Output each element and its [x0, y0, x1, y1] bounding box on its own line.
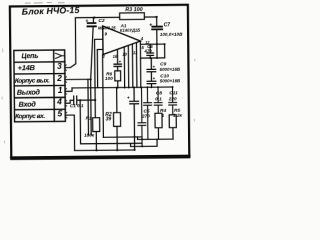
svg-text:R3 100: R3 100 [125, 7, 142, 13]
wire row5 korpus vh to ground bus [65, 115, 74, 151]
wire C1 to node [77, 99, 95, 101]
junction bus C10 [151, 86, 153, 88]
junction output C7 [156, 43, 158, 45]
svg-text:3: 3 [57, 61, 62, 71]
svg-text:4: 4 [140, 36, 144, 41]
capacitor C8 [154, 87, 162, 113]
svg-text:С2: С2 [98, 18, 105, 24]
svg-text:+14В: +14В [18, 63, 36, 72]
wire output bus horizontal [72, 86, 172, 89]
capacitor C11 [169, 87, 177, 115]
svg-text:10: 10 [122, 52, 127, 57]
svg-text:С11: С11 [169, 90, 178, 96]
capacitor C7 plates [152, 27, 162, 30]
scan noise specks top [2, 47, 196, 143]
junction busB C4 [141, 138, 143, 140]
svg-text:11: 11 [133, 50, 138, 55]
svg-text:+: + [127, 96, 130, 101]
capacitor C9 C10 stack [147, 58, 156, 87]
svg-text:0,1: 0,1 [155, 96, 162, 102]
svg-text:+: + [119, 59, 122, 64]
wire pin stub c [131, 44, 133, 87]
capacitor C4 bottom [138, 87, 146, 146]
junction bus C8 [157, 86, 159, 88]
junction input riser [79, 99, 81, 101]
junction busA C3 [133, 136, 135, 138]
svg-text:Выход: Выход [17, 87, 41, 96]
junction bus C5 [146, 86, 148, 88]
capacitor small electrolytic near pin [114, 64, 121, 66]
svg-text:9: 9 [104, 31, 107, 36]
connector fork symbol [55, 53, 64, 58]
resistor R3 [120, 13, 145, 20]
connector pin 3 hook [65, 65, 67, 71]
border frame [10, 5, 189, 159]
junction row2 ground [90, 78, 92, 80]
bus D [131, 139, 158, 146]
connector pin 1 hook [65, 89, 67, 95]
svg-text:R1: R1 [85, 116, 92, 122]
svg-text:5: 5 [57, 108, 62, 118]
svg-text:К140УД1Б: К140УД1Б [120, 28, 140, 33]
junction bus output [140, 86, 142, 88]
wire op-amp ground left [102, 54, 105, 137]
junction bus pin10 [124, 86, 126, 88]
svg-text:1,2к: 1,2к [173, 113, 183, 119]
connector pin 2 hook [65, 77, 67, 83]
svg-text:16: 16 [113, 54, 118, 59]
wire node to op-amp input 9 [95, 39, 104, 100]
junction bus R6 [117, 87, 119, 89]
capacitor C1 [74, 96, 77, 105]
resistor R4 [155, 113, 162, 139]
svg-text:+: + [149, 22, 152, 28]
svg-text:270: 270 [141, 113, 150, 119]
svg-text:+: + [153, 76, 156, 81]
wire pin stub b [127, 46, 129, 88]
svg-text:1: 1 [162, 113, 165, 119]
svg-text:100: 100 [105, 76, 113, 81]
connector table outline [14, 50, 65, 122]
bus B [138, 137, 174, 140]
wire lower input [97, 49, 103, 87]
wire row4 vhod to C1 [65, 100, 73, 103]
junction bus pin11 [128, 86, 130, 88]
wire pin16 cluster [116, 49, 118, 63]
wire output down right [140, 44, 164, 58]
svg-text:Блок НЧО-15: Блок НЧО-15 [22, 5, 80, 17]
svg-text:220: 220 [168, 96, 177, 102]
bus C [80, 79, 141, 144]
svg-text:1: 1 [58, 85, 63, 95]
svg-text:Корпус вых.: Корпус вых. [15, 77, 50, 84]
svg-text:+: + [152, 64, 155, 69]
capacitor C5 [144, 87, 152, 139]
junction ground C3 [134, 149, 136, 151]
svg-text:4: 4 [56, 97, 62, 107]
junction rail C2 tap [93, 16, 95, 18]
junction bus C3 [133, 86, 135, 88]
resistor R1 [92, 100, 99, 150]
wire +14V row3 to top rail [64, 17, 120, 67]
junction mid right [156, 57, 158, 59]
resistor R6 [115, 71, 121, 88]
junction bus C11 [172, 86, 174, 88]
svg-text:5000×16В: 5000×16В [160, 67, 181, 72]
bottom border extra thickness [11, 156, 190, 158]
svg-text:100,0×10В: 100,0×10В [160, 32, 183, 37]
wire row2 korpus vyh [65, 78, 91, 80]
capacitor C2 electrolytic [87, 23, 95, 26]
junction rail C7 tap [156, 16, 158, 18]
svg-text:180к: 180к [84, 132, 95, 137]
wire row1 vyhod to bus [65, 88, 72, 91]
op-amp U1 triangle [103, 26, 141, 55]
bus E ground [75, 149, 135, 152]
wire pin stub d [135, 43, 137, 88]
svg-text:5000×16В: 5000×16В [160, 78, 181, 83]
junction input node [94, 99, 96, 101]
connector pin 4 hook [65, 100, 67, 106]
svg-text:39: 39 [106, 116, 112, 122]
junction output right [164, 43, 166, 45]
wire C7 vertical [156, 17, 158, 43]
component labels [69, 7, 184, 138]
svg-text:Цепь: Цепь [21, 53, 38, 60]
op-amp output stub [140, 41, 165, 87]
capacitor C6 [147, 44, 154, 58]
wire electrolytic to R6 [117, 67, 119, 71]
svg-text:С7: С7 [164, 22, 171, 28]
svg-text:Корпус вх.: Корпус вх. [15, 113, 45, 120]
svg-text:Вход: Вход [19, 99, 37, 108]
wire C2 ground drop [90, 18, 94, 136]
svg-text:С8: С8 [156, 90, 163, 96]
junction bus R2 [116, 87, 118, 89]
bus A [103, 136, 142, 138]
svg-text:МБМ0,25: МБМ0,25 [98, 26, 116, 31]
junction busD C4 [141, 145, 143, 147]
junction C6 lower [149, 57, 151, 59]
junction ground R2 [116, 149, 118, 151]
wire pin stub a [123, 47, 125, 87]
connector pin 5 hook [65, 112, 67, 118]
resistor R5 [169, 115, 176, 139]
capacitor C3 electrolytic mid [130, 87, 139, 150]
resistor R2 [113, 88, 121, 151]
svg-text:470: 470 [143, 48, 152, 53]
wire top rail right of R3 [144, 16, 156, 18]
wire x157 down [156, 44, 158, 58]
svg-text:2: 2 [56, 73, 62, 83]
svg-text:+: + [85, 19, 88, 25]
svg-text:С1 0,1: С1 0,1 [70, 103, 84, 108]
junction ground R1 [95, 149, 97, 151]
